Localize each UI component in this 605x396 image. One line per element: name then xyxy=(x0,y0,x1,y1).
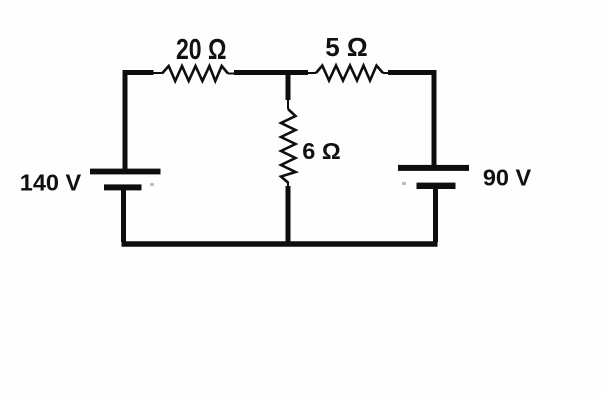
svg-text:6 Ω: 6 Ω xyxy=(302,138,340,164)
svg-text:20 Ω: 20 Ω xyxy=(176,34,227,66)
svg-text:5 Ω: 5 Ω xyxy=(325,32,368,62)
svg-text:90 V: 90 V xyxy=(483,165,532,191)
svg-text:140 V: 140 V xyxy=(20,170,82,196)
